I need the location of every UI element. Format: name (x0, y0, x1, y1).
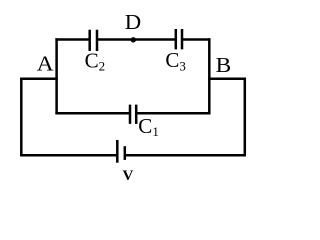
svg-text:A: A (37, 52, 55, 76)
svg-text:V: V (123, 168, 134, 184)
svg-text:B: B (216, 53, 232, 77)
svg-text:D: D (125, 10, 141, 34)
